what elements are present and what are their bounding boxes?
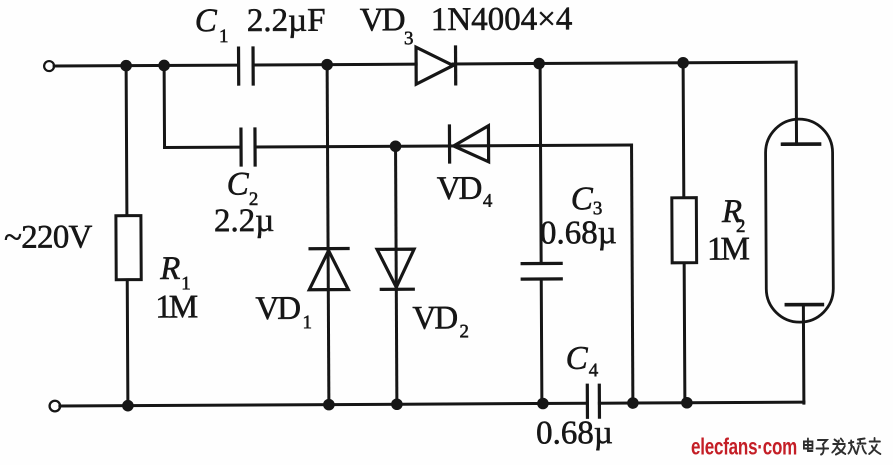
svg-text:C: C <box>571 181 594 217</box>
svg-text:1M: 1M <box>707 231 750 267</box>
node top rail C3 <box>533 58 545 70</box>
diode VD1 wire <box>327 65 329 405</box>
wire top rail left <box>54 64 238 68</box>
node top rail R1 <box>120 60 132 72</box>
capacitor C2 <box>241 129 255 165</box>
terminal top-left <box>44 61 54 71</box>
svg-text:C: C <box>195 3 218 39</box>
svg-text:VD: VD <box>255 291 300 327</box>
svg-text:1: 1 <box>302 312 312 333</box>
svg-text:C: C <box>227 167 250 203</box>
node top rail R2 <box>677 57 689 69</box>
svg-text:3: 3 <box>404 28 414 49</box>
wire top rail right <box>453 62 796 64</box>
svg-text:elecfans·com: elecfans·com <box>691 435 797 460</box>
logo chinese 电子发烧友 <box>804 438 881 455</box>
diode VD3 <box>416 47 456 84</box>
svg-text:C: C <box>566 341 589 377</box>
capacitor C3 wire bottom <box>540 279 544 403</box>
svg-text:0.68µ: 0.68µ <box>540 215 617 251</box>
svg-text:2: 2 <box>459 321 469 342</box>
capacitor C1 <box>239 48 254 84</box>
wire lamp bottom stub <box>802 305 806 403</box>
terminal bottom-left <box>50 401 61 412</box>
resistor R1 <box>116 216 141 280</box>
resistor R1 wire <box>126 66 128 406</box>
node bottom rail R2 <box>681 397 693 409</box>
svg-text:0.68µ: 0.68µ <box>536 415 613 451</box>
svg-text:2.2µ: 2.2µ <box>214 203 274 239</box>
wire bottom rail left <box>60 403 587 406</box>
wire C2 drop <box>163 65 166 147</box>
svg-text:2.2µF: 2.2µF <box>247 3 326 39</box>
svg-text:R: R <box>159 251 180 287</box>
lamp electrode bottom <box>786 303 822 307</box>
node bottom rail VD2 <box>391 398 403 410</box>
lamp electrode top <box>783 142 820 146</box>
svg-text:1N4004×4: 1N4004×4 <box>431 1 573 38</box>
wire bottom rail right <box>599 402 803 403</box>
svg-text:1M: 1M <box>155 289 198 325</box>
svg-text:VD: VD <box>437 171 482 207</box>
wire top rail middle <box>253 63 416 67</box>
node C2 rail VD2 <box>390 140 402 152</box>
capacitor C3 wire top <box>540 64 541 264</box>
node bottom rail R1 <box>122 400 134 412</box>
capacitor C4 <box>587 385 599 417</box>
diode VD4 <box>449 126 488 162</box>
resistor R2 wire <box>683 63 685 403</box>
node top rail C2 <box>158 60 170 72</box>
svg-text:VD: VD <box>412 300 457 336</box>
capacitor C3 <box>522 263 561 279</box>
diode VD2 <box>377 249 414 289</box>
wire C2 rail left <box>165 146 241 149</box>
diode VD2 wire <box>396 146 397 404</box>
svg-text:4: 4 <box>483 191 493 212</box>
svg-text:~220V: ~220V <box>4 219 93 255</box>
svg-text:1: 1 <box>219 26 229 47</box>
lamp tube <box>765 119 833 322</box>
svg-text:VD: VD <box>360 2 405 38</box>
resistor R2 <box>672 198 697 263</box>
node top rail VD1 <box>321 59 333 71</box>
wire VD4 branch down <box>632 145 633 403</box>
wire lamp top stub <box>795 62 798 144</box>
node bottom rail VD1 <box>323 399 335 411</box>
node bottom rail VD4 <box>627 397 639 409</box>
wire C2 rail right <box>255 145 631 147</box>
svg-text:4: 4 <box>589 360 599 381</box>
diode VD1 <box>309 249 348 290</box>
node bottom rail C3 <box>537 398 549 410</box>
